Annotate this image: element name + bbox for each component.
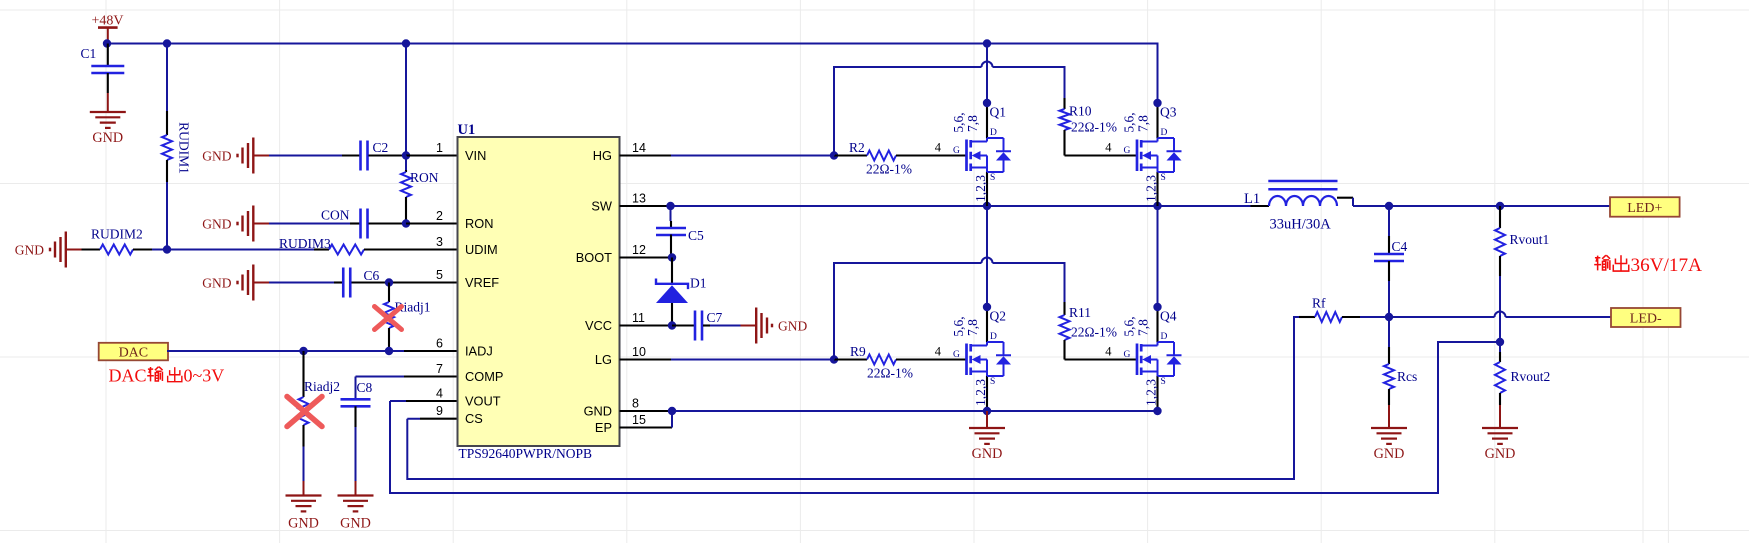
diode D1 bootstrap [656, 258, 707, 326]
resistor R10 [1060, 98, 1138, 156]
resistor Riadj1 [384, 283, 431, 352]
inductor L1 [1244, 181, 1353, 233]
resistor R9 [834, 344, 967, 381]
junction RUDIM1/RUDIM2/RUDIM3 [163, 245, 171, 253]
wire GND to C6 [269, 282, 334, 284]
pin 14 HG stub [620, 154, 672, 156]
junction Q3 drain [1153, 99, 1161, 107]
junction GND/Q2 source [983, 407, 991, 415]
svg-text:S: S [990, 377, 995, 387]
port LED+ [1610, 197, 1680, 217]
svg-text:GND: GND [1374, 446, 1405, 462]
svg-text:GND: GND [202, 276, 231, 291]
svg-text:C8: C8 [357, 380, 373, 395]
pin 2 RON label [436, 209, 493, 231]
svg-text:R9: R9 [850, 344, 866, 359]
pin 1 VIN label [436, 141, 486, 163]
junction VCC/C7 [668, 321, 676, 329]
svg-text:L1: L1 [1244, 191, 1260, 207]
wire hop LED- over Rvout column [1495, 312, 1506, 318]
pin 12 BOOT stub [620, 256, 673, 258]
svg-text:RUDIM1: RUDIM1 [177, 122, 192, 174]
svg-text:R11: R11 [1069, 305, 1091, 320]
ground Rvout2 [1482, 405, 1518, 462]
svg-text:10: 10 [632, 345, 646, 359]
pin 6 IADJ [404, 350, 458, 352]
svg-text:7: 7 [436, 362, 443, 376]
transistor Q3 [1105, 103, 1181, 206]
svg-text:S: S [1161, 173, 1166, 183]
svg-text:R10: R10 [1069, 104, 1092, 119]
svg-text:VREF: VREF [465, 275, 499, 290]
pin 15 EP label [595, 413, 646, 435]
wire LG branch to R11 [834, 263, 1065, 360]
resistor RUDIM1 [162, 44, 192, 250]
ground Riadj2 [286, 481, 322, 532]
svg-text:Rvout2: Rvout2 [1511, 369, 1551, 384]
svg-text:7,8: 7,8 [965, 319, 980, 336]
wire RUDIM3 net [167, 249, 314, 251]
pin 13 SW stub [620, 205, 671, 207]
junction IADJ/Riadj2 [299, 347, 307, 355]
svg-text:9: 9 [436, 404, 443, 418]
svg-text:2: 2 [436, 209, 443, 223]
svg-text:U1: U1 [458, 122, 476, 138]
junction GND/Q4 source [1153, 407, 1161, 415]
ground Rcs [1371, 405, 1407, 462]
capacitor C6 [334, 268, 458, 298]
svg-text:5,6,: 5,6, [951, 112, 966, 132]
wire LED- net [1360, 316, 1611, 318]
pin 13 SW label [591, 192, 646, 214]
wire CON net [269, 223, 350, 225]
svg-text:14: 14 [632, 141, 646, 155]
svg-text:GND: GND [288, 516, 319, 532]
resistor RUDIM3 [314, 245, 458, 255]
resistor Rf [1294, 296, 1360, 323]
svg-text:R2: R2 [849, 140, 865, 155]
capacitor C4 [1374, 206, 1408, 317]
junction Q2 drain [983, 303, 991, 311]
junction GND/EP [668, 407, 676, 415]
svg-text:GND: GND [202, 217, 231, 232]
svg-text:1: 1 [436, 141, 443, 155]
svg-text:3: 3 [436, 235, 443, 249]
junction LED+/Rvout1 [1496, 202, 1504, 210]
svg-text:22Ω-1%: 22Ω-1% [1071, 325, 1117, 340]
resistor RON [401, 156, 439, 224]
wire SW to Q2 drain [986, 206, 988, 307]
junction top rail / Q1 drain column [983, 39, 991, 47]
wire SW rail to L1 [671, 205, 1256, 207]
svg-text:D: D [1161, 332, 1168, 342]
capacitor C8 [341, 380, 373, 481]
wire HG [671, 155, 834, 157]
junction RON node [402, 219, 410, 227]
svg-text:DAC: DAC [109, 366, 147, 386]
capacitor C1 [81, 44, 125, 94]
svg-text:G: G [1124, 350, 1131, 360]
svg-text:Riadj2: Riadj2 [304, 379, 340, 394]
pin 4 VOUT label [436, 387, 501, 409]
svg-text:RON: RON [410, 170, 439, 185]
wire COMP net [356, 377, 405, 400]
pin 2 RON [406, 222, 458, 224]
resistor Rvout2 [1495, 342, 1550, 405]
no-fit mark X Riadj1 [375, 307, 402, 330]
pin 7 COMP label [436, 362, 503, 384]
svg-text:VCC: VCC [585, 318, 612, 333]
svg-text:+48V: +48V [91, 14, 123, 29]
svg-text:Rvout1: Rvout1 [1510, 232, 1550, 247]
junction Rvout1/Rvout2 divider tap [1496, 338, 1504, 346]
svg-text:LED+: LED+ [1627, 201, 1662, 216]
pin 5 VREF label [436, 268, 499, 290]
junction +48V/C1 [103, 39, 111, 47]
capacitor C2 [342, 140, 406, 171]
pin 3 UDIM label [436, 235, 498, 257]
power ground port (VCC) [741, 325, 757, 327]
svg-text:22Ω-1%: 22Ω-1% [867, 366, 913, 381]
wire hop HG over Q1 column [982, 62, 993, 67]
svg-text:4: 4 [1105, 141, 1112, 155]
svg-text:0~3V: 0~3V [184, 366, 225, 386]
svg-text:G: G [953, 350, 960, 360]
pin 14 HG label [593, 141, 646, 163]
svg-text:5,6,: 5,6, [1122, 112, 1137, 132]
junction IADJ/Riadj1 [385, 347, 393, 355]
svg-text:33uH/30A: 33uH/30A [1270, 217, 1332, 233]
svg-text:IADJ: IADJ [465, 344, 493, 359]
svg-text:LG: LG [595, 352, 612, 367]
transistor Q2 [935, 307, 1011, 410]
junction SW/Q3 source/Q4 drain [1153, 202, 1161, 210]
pin 9 CS label [436, 404, 483, 426]
svg-text:UDIM: UDIM [465, 242, 498, 257]
svg-text:7,8: 7,8 [1136, 319, 1151, 336]
svg-text:7,8: 7,8 [965, 115, 980, 132]
svg-text:VIN: VIN [465, 148, 486, 163]
port LED- [1611, 308, 1681, 327]
pin 10 LG label [595, 345, 646, 367]
pin 12 BOOT label [576, 243, 646, 265]
power port +48V [91, 14, 123, 44]
svg-text:22Ω-1%: 22Ω-1% [866, 162, 912, 177]
wire hop LG over Q2 column [982, 258, 993, 264]
svg-text:Q4: Q4 [1160, 309, 1177, 324]
svg-text:C2: C2 [373, 140, 389, 155]
svg-text:12: 12 [632, 243, 646, 257]
junction SW/Q1 source [983, 202, 991, 210]
junction HG/R2/branch [830, 151, 838, 159]
junction VREF/Riadj1 [385, 278, 393, 286]
svg-text:G: G [1124, 146, 1131, 156]
resistor Rvout1 [1495, 206, 1549, 342]
port DAC [99, 343, 168, 361]
resistor R2 [834, 140, 967, 177]
svg-text:RUDIM2: RUDIM2 [91, 227, 143, 242]
svg-text:6: 6 [436, 337, 443, 351]
wire LG [671, 359, 834, 361]
wire LED+ net [1353, 205, 1610, 207]
pin 4 VOUT [406, 400, 458, 402]
wire CS feedback to Rf [407, 317, 1299, 479]
svg-text:Rf: Rf [1312, 296, 1326, 311]
svg-text:S: S [990, 173, 995, 183]
svg-text:GND: GND [340, 516, 371, 532]
svg-text:GND: GND [202, 149, 231, 164]
power ground port (RON row) [253, 223, 269, 225]
svg-text:8: 8 [632, 397, 639, 411]
junction SW/C5 [666, 202, 674, 210]
svg-text:S: S [1161, 377, 1166, 387]
junction top rail / C2-RON column [402, 39, 410, 47]
svg-text:1,2,3: 1,2,3 [973, 379, 988, 406]
svg-text:C5: C5 [688, 228, 704, 243]
svg-text:CS: CS [465, 411, 483, 426]
svg-text:4: 4 [436, 387, 443, 401]
svg-text:5,6,: 5,6, [951, 316, 966, 336]
wire Q3 source to Q4 drain [1157, 206, 1159, 307]
svg-text:4: 4 [1105, 345, 1112, 359]
transistor Q4 [1105, 307, 1181, 410]
svg-text:TPS92640PWPR/NOPB: TPS92640PWPR/NOPB [459, 446, 593, 461]
svg-text:15: 15 [632, 413, 646, 427]
svg-text:4: 4 [935, 141, 942, 155]
svg-text:5: 5 [436, 268, 443, 282]
svg-text:11: 11 [632, 311, 645, 325]
resistor RUDIM2 [82, 227, 153, 255]
svg-text:DAC: DAC [119, 345, 149, 360]
svg-text:Rcs: Rcs [1397, 369, 1417, 384]
svg-text:D: D [990, 332, 997, 342]
op-amp U1 TPS92640PWPR/NOPB body [458, 122, 620, 461]
svg-text:13: 13 [632, 192, 646, 206]
svg-text:CON: CON [321, 208, 350, 223]
annotation DAC output 0~3V [109, 366, 225, 386]
svg-text:GND: GND [15, 243, 44, 258]
pin 15 EP stub [620, 426, 673, 428]
svg-text:Q3: Q3 [1160, 105, 1177, 120]
svg-text:22Ω-1%: 22Ω-1% [1071, 120, 1117, 135]
pin 10 LG stub [620, 358, 672, 360]
svg-text:G: G [953, 146, 960, 156]
junction VIN node [402, 151, 410, 159]
svg-text:HG: HG [593, 148, 612, 163]
power ground port (far left RUDIM2) [66, 249, 82, 251]
ground C8 [338, 481, 374, 532]
pin 8 GND stub [620, 410, 673, 412]
pin 9 CS [420, 418, 458, 420]
pin 8 GND label [584, 397, 639, 419]
svg-text:C6: C6 [364, 268, 380, 283]
ground power rail [969, 411, 1005, 462]
svg-text:C4: C4 [1392, 239, 1408, 254]
pin 11 VCC stub [620, 324, 673, 326]
pin 1 VIN [406, 154, 458, 156]
wire HG branch to R10 [834, 67, 1065, 156]
junction LED+/C4 [1385, 202, 1393, 210]
power ground port (VREF row) [253, 282, 269, 284]
svg-text:Q1: Q1 [990, 105, 1007, 120]
svg-text:1,2,3: 1,2,3 [1144, 379, 1159, 406]
capacitor C5 [656, 206, 704, 258]
svg-text:36V/17A: 36V/17A [1631, 255, 1703, 276]
svg-text:GND: GND [972, 446, 1003, 462]
svg-text:1,2,3: 1,2,3 [973, 175, 988, 202]
svg-text:5,6,: 5,6, [1122, 316, 1137, 336]
wire GND to C2 [269, 155, 342, 157]
svg-text:GND: GND [584, 404, 612, 419]
wire VOUT feedback to output divider [390, 342, 1498, 493]
wire IADJ net [167, 350, 404, 352]
svg-text:C7: C7 [707, 310, 723, 325]
svg-text:D: D [990, 128, 997, 138]
svg-text:D1: D1 [690, 276, 707, 291]
svg-text:EP: EP [595, 420, 612, 435]
svg-text:4: 4 [935, 345, 942, 359]
resistor Riadj2 [299, 351, 341, 481]
annotation output 36V/17A [1594, 255, 1702, 276]
svg-text:LED-: LED- [1630, 311, 1662, 326]
svg-text:7,8: 7,8 [1136, 115, 1151, 132]
svg-text:Q2: Q2 [990, 309, 1007, 324]
wire RUDIM2 to junction [152, 249, 167, 251]
svg-text:1,2,3: 1,2,3 [1144, 175, 1159, 202]
pin 7 COMP [404, 375, 458, 377]
wire GND rail [672, 410, 1158, 412]
capacitor CON coupling [350, 209, 406, 239]
ground C1 [90, 93, 126, 146]
wire Q1 column from top rail [986, 44, 988, 104]
junction Q1 drain [983, 99, 991, 107]
no-fit mark X Riadj2 [287, 397, 322, 427]
wire EP to GND [671, 411, 673, 428]
svg-text:GND: GND [1485, 446, 1516, 462]
svg-text:C1: C1 [81, 46, 97, 61]
junction LG/R9/branch [830, 355, 838, 363]
pin 11 VCC label [585, 311, 645, 333]
capacitor C7 [672, 310, 741, 341]
transistor Q1 [935, 103, 1011, 206]
junction BOOT/D1 [668, 253, 676, 261]
svg-text:BOOT: BOOT [576, 250, 612, 265]
junction Q4 drain [1153, 303, 1161, 311]
svg-text:GND: GND [92, 130, 123, 146]
pin 6 IADJ label [436, 337, 493, 359]
svg-text:D: D [1161, 128, 1168, 138]
svg-text:VOUT: VOUT [465, 394, 501, 409]
resistor Rcs [1384, 317, 1417, 405]
junction top rail / RUDIM1 [163, 39, 171, 47]
svg-text:SW: SW [591, 199, 613, 214]
svg-text:GND: GND [778, 319, 807, 334]
power ground port (VIN row) [253, 155, 269, 157]
wire VIN column [405, 44, 407, 156]
wire +48V top rail [107, 44, 1158, 104]
junction LED-/C4/Rcs [1385, 313, 1393, 321]
svg-text:COMP: COMP [465, 369, 503, 384]
resistor R11 [1060, 302, 1138, 360]
svg-text:RON: RON [465, 216, 493, 231]
